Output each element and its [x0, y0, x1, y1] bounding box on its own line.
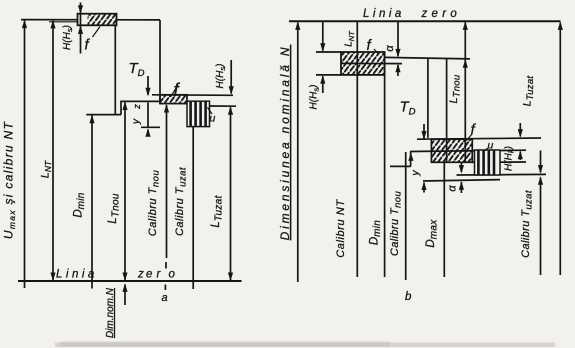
svg-text:α: α [384, 45, 396, 52]
svg-text:Linia: Linia [363, 8, 405, 20]
svg-text:Dim.nom.N: Dim.nom.N [105, 287, 116, 338]
svg-text:Calibru NT: Calibru NT [335, 199, 347, 258]
svg-text:a: a [162, 292, 168, 304]
svg-text:y: y [130, 118, 142, 125]
svg-text:Dimensiunea nominală N: Dimensiunea nominală N [278, 45, 292, 241]
svg-text:zero: zero [421, 8, 462, 20]
svg-text:H(Hk): H(Hk) [504, 146, 516, 171]
svg-text:b: b [405, 291, 412, 303]
svg-text:z: z [132, 104, 143, 110]
svg-text:u: u [488, 140, 494, 152]
svg-text:H(Hs): H(Hs) [62, 25, 74, 50]
svg-text:α: α [447, 185, 459, 192]
svg-text:o: o [169, 269, 176, 281]
svg-text:H(Hs): H(Hs) [309, 85, 321, 110]
svg-text:H(Hs): H(Hs) [215, 64, 227, 89]
svg-text:Linia: Linia [56, 269, 98, 281]
svg-text:ze: ze [137, 269, 155, 281]
svg-text:u: u [210, 113, 216, 125]
svg-text:y: y [410, 170, 422, 177]
